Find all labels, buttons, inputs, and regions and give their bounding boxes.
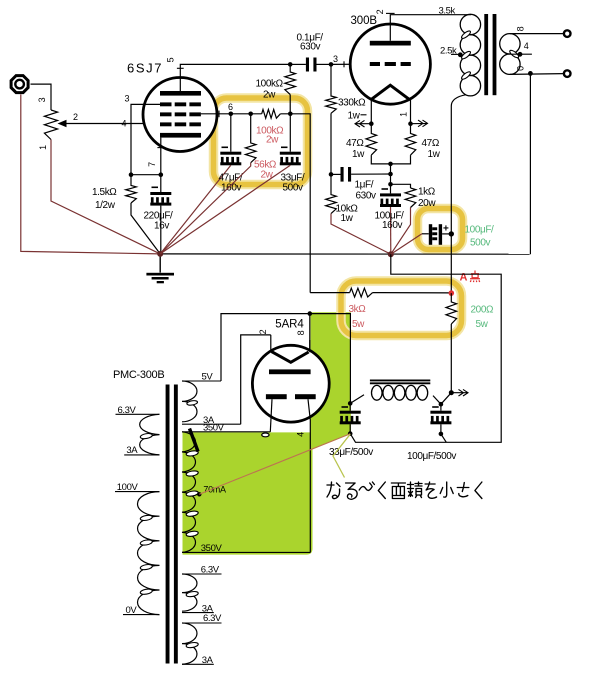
svg-text:0: 0 bbox=[516, 66, 526, 71]
5V winding bbox=[182, 380, 221, 382]
ground junction node 2 bbox=[388, 251, 394, 257]
6.3V winding B bbox=[182, 622, 222, 624]
wire 3k to A node bbox=[373, 292, 452, 294]
note: make area as small as possible bbox=[327, 482, 340, 499]
svg-text:1w: 1w bbox=[428, 149, 441, 160]
wire grid into 300B bbox=[331, 63, 370, 65]
svg-text:160v: 160v bbox=[382, 220, 402, 231]
6.3V winding A bbox=[182, 573, 222, 575]
svg-text:500v: 500v bbox=[470, 238, 490, 249]
svg-text:2w: 2w bbox=[261, 170, 274, 181]
svg-text:350V: 350V bbox=[201, 543, 223, 554]
svg-text:500v: 500v bbox=[283, 183, 303, 194]
svg-text:1: 1 bbox=[399, 112, 409, 117]
svg-text:6.3V: 6.3V bbox=[201, 565, 220, 576]
node A (red) bbox=[449, 290, 455, 296]
svg-text:+: + bbox=[443, 224, 449, 235]
5AR4 anode leads bbox=[270, 399, 272, 432]
svg-text:1w: 1w bbox=[341, 213, 354, 224]
svg-text:100V: 100V bbox=[117, 482, 139, 493]
svg-text:3kΩ: 3kΩ bbox=[349, 304, 367, 315]
resistor 200ohm 5w bbox=[446, 293, 457, 324]
output transformer OPT core bbox=[484, 14, 488, 95]
wire 5V winding to 5AR4 pin 8 bbox=[221, 314, 310, 381]
6SJ7 pin 6 screen lead bbox=[201, 113, 231, 115]
resistor 100k 2w plate load bbox=[285, 64, 296, 94]
svg-text:1w: 1w bbox=[348, 111, 361, 122]
svg-text:1kΩ: 1kΩ bbox=[418, 187, 436, 198]
svg-text:330kΩ: 330kΩ bbox=[338, 98, 366, 109]
wire OPT primary bottom (B+) down bbox=[451, 95, 466, 294]
svg-text:1w: 1w bbox=[352, 149, 365, 160]
green highlight region bbox=[183, 312, 351, 554]
wire 5AR4 pin2 to 5V/3A bbox=[241, 335, 271, 424]
svg-text:5w: 5w bbox=[476, 319, 489, 330]
svg-text:47Ω: 47Ω bbox=[346, 138, 364, 149]
filament AC arrows bbox=[355, 120, 371, 127]
capacitor 0.1uF/630v coupling bbox=[290, 63, 306, 65]
capacitor 100uF/500v filter bbox=[440, 404, 442, 411]
wire jack to volume pot top bbox=[31, 84, 52, 110]
capacitor 33uF/500v filter bbox=[349, 403, 351, 410]
highlight box around 3k resistor / A node bbox=[341, 281, 462, 336]
svg-text:6SJ7: 6SJ7 bbox=[127, 61, 163, 76]
svg-text:7: 7 bbox=[147, 162, 157, 167]
phase slash mark bbox=[190, 429, 199, 452]
svg-text:3: 3 bbox=[37, 97, 47, 102]
svg-text:1/2w: 1/2w bbox=[95, 200, 116, 211]
node: 6SJ7 plate junction bbox=[288, 62, 293, 67]
svg-text:6.3V: 6.3V bbox=[118, 405, 137, 416]
6SJ7 pin 7 cathode lead bbox=[160, 138, 162, 175]
svg-text:8: 8 bbox=[516, 26, 526, 31]
wire screen node bbox=[231, 113, 262, 115]
svg-text:3: 3 bbox=[125, 94, 130, 104]
6SJ7 pin 5 plate lead bbox=[180, 64, 290, 91]
svg-text:4: 4 bbox=[524, 41, 529, 51]
resistor 10k 1w bbox=[326, 174, 337, 213]
output terminal 8 bbox=[564, 30, 571, 37]
svg-text:100μF/: 100μF/ bbox=[465, 225, 495, 236]
svg-text:6.3V: 6.3V bbox=[203, 613, 222, 624]
OPT secondary 4 ohm tap bbox=[512, 53, 532, 55]
power transformer PMC-300B core bbox=[166, 385, 170, 664]
svg-text:6: 6 bbox=[228, 102, 233, 112]
OPT secondary 8 ohm tap bbox=[510, 33, 564, 35]
svg-text:300B: 300B bbox=[351, 15, 378, 27]
300B pin 2 plate lead to OPT bbox=[390, 15, 471, 41]
resistor 47ohm 1w (right hum bal) bbox=[405, 124, 416, 155]
svg-text:4: 4 bbox=[122, 119, 127, 129]
capacitor 100uF/160v cathode bypass bbox=[390, 184, 392, 193]
5AR4 filament bbox=[272, 352, 309, 363]
svg-text:1.5kΩ: 1.5kΩ bbox=[92, 187, 117, 198]
capacitor 33uF/500v bbox=[289, 114, 291, 152]
svg-text:70mA: 70mA bbox=[203, 485, 226, 495]
svg-text:A: A bbox=[460, 272, 468, 284]
svg-text:2: 2 bbox=[375, 9, 385, 14]
svg-text:2: 2 bbox=[258, 329, 268, 334]
svg-text:5: 5 bbox=[166, 57, 176, 62]
capacitor 1uF/630v bbox=[329, 172, 334, 177]
highlight box around 100uF/500v cap bbox=[418, 209, 463, 250]
resistor 100k 2w decoupling (horizontal) bbox=[262, 109, 281, 118]
OPT 2.5k tap bbox=[451, 53, 460, 55]
OPT secondary 0 ohm tap bbox=[510, 73, 564, 76]
svg-text:100μF/500v: 100μF/500v bbox=[407, 451, 456, 462]
main ground bus bbox=[160, 253, 529, 255]
wire pot bottom to ground bbox=[51, 140, 160, 254]
svg-text:3.5k: 3.5k bbox=[439, 6, 456, 17]
svg-text:1μF/: 1μF/ bbox=[355, 180, 374, 191]
svg-text:20w: 20w bbox=[418, 198, 436, 209]
svg-text:PMC-300B: PMC-300B bbox=[113, 369, 164, 381]
svg-text:8: 8 bbox=[296, 330, 306, 335]
wire filter negative return bbox=[350, 254, 501, 442]
5AR4 plate bars bbox=[269, 369, 311, 374]
resistor 47ohm 1w (left hum bal) bbox=[366, 124, 377, 155]
resistor 1.5k 1/2w cathode bbox=[126, 175, 137, 203]
svg-text:2.5k: 2.5k bbox=[440, 46, 457, 57]
svg-text:5w: 5w bbox=[352, 319, 365, 330]
node: 300B grid bbox=[329, 62, 334, 67]
svg-text:2: 2 bbox=[73, 112, 78, 122]
wire HV center tap to filter common (salmon) bbox=[199, 434, 350, 495]
wire to screen feed drop bbox=[280, 114, 310, 293]
ground symbol bbox=[159, 254, 161, 273]
node B+ to choke output / arrow bbox=[449, 390, 454, 395]
capacitor 47uF/160v bbox=[230, 114, 232, 152]
svg-text:5AR4: 5AR4 bbox=[275, 319, 304, 331]
svg-text:2w: 2w bbox=[263, 90, 276, 101]
wire jack sleeve to ground (dark red) bbox=[21, 94, 160, 254]
resistor 1k 20w cathode bbox=[391, 184, 411, 188]
svg-text:3A: 3A bbox=[126, 445, 138, 456]
wire 5AR4 cathode to choke input bbox=[310, 314, 351, 404]
HV 350-0-350 winding bbox=[182, 431, 270, 433]
wire screen feed to 3k bbox=[310, 292, 350, 294]
svg-text:350V: 350V bbox=[203, 423, 225, 434]
ground junction node bbox=[157, 251, 163, 257]
svg-text:2w: 2w bbox=[266, 135, 279, 146]
100V mains winding bbox=[115, 491, 160, 493]
6.3V primary-side winding bbox=[116, 413, 160, 415]
OPT secondary winding bbox=[500, 34, 520, 54]
svg-text:100kΩ: 100kΩ bbox=[256, 79, 284, 90]
svg-text:5V: 5V bbox=[202, 372, 214, 383]
capacitor 220uF/16v cathode bypass bbox=[160, 175, 162, 192]
svg-text:3: 3 bbox=[333, 54, 338, 64]
wire 0 tap to ground bus bbox=[529, 73, 531, 254]
OPT primary winding bbox=[460, 14, 480, 34]
svg-text:3A: 3A bbox=[202, 655, 214, 666]
tube 6SJ7 V1 bbox=[143, 78, 217, 152]
output terminal 0 bbox=[564, 70, 571, 77]
6SJ7 pin 3 lead bbox=[131, 104, 160, 174]
svg-text:47Ω: 47Ω bbox=[422, 138, 440, 149]
capacitor 100uF/500v B+ filter bbox=[429, 224, 432, 245]
svg-text:0V: 0V bbox=[126, 605, 138, 616]
resistor 3k 5w bbox=[350, 288, 373, 297]
tube 5AR4 V3 bbox=[309, 314, 311, 353]
highlight box around 100k/56k/47uF/33uF bbox=[214, 98, 308, 185]
resistor 330k 1w grid leak bbox=[326, 64, 337, 113]
300B filament bbox=[372, 85, 409, 99]
input jack J1 bbox=[11, 76, 28, 93]
leader line from note to 33uF bbox=[333, 434, 350, 477]
svg-text:16v: 16v bbox=[154, 221, 169, 232]
svg-text:4: 4 bbox=[295, 432, 305, 437]
HV center tap node bbox=[197, 492, 201, 496]
resistor 56k 2w screen dropper bbox=[245, 114, 256, 163]
choke L1 core bbox=[370, 380, 430, 383]
svg-text:1: 1 bbox=[38, 145, 48, 150]
svg-text:200Ω: 200Ω bbox=[471, 305, 494, 316]
choke L1 winding bbox=[372, 385, 383, 400]
potentiometer VR1 (volume) bbox=[44, 110, 57, 140]
300B filament legs pins 1,4 bbox=[370, 99, 372, 123]
filament center tap node bbox=[371, 155, 410, 164]
svg-text:630v: 630v bbox=[300, 42, 320, 53]
cathode node wire bbox=[131, 174, 161, 176]
tube 300B V2 bbox=[350, 24, 430, 104]
pot wiper arrow to 6SJ7 grid pin 4 bbox=[65, 123, 160, 125]
svg-text:630v: 630v bbox=[356, 191, 376, 202]
